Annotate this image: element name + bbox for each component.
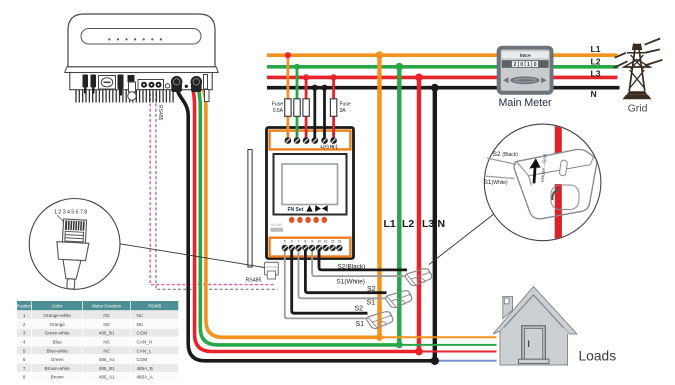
inverter vent [81,29,201,45]
svg-text:10: 10 [317,239,321,243]
wire CT2 S2 black wire [305,248,386,293]
wire CT1 S2 black wire [319,248,407,270]
svg-text:Position: Position [17,304,33,309]
svg-text:S1(White): S1(White) [337,278,365,285]
CT clamp CT2 on L2 [386,291,412,308]
main meter digits 2010 [502,60,549,68]
svg-text:485_B1: 485_B1 [99,331,115,336]
svg-text:COM: COM [137,331,148,336]
main meter spin wheel [510,76,539,84]
svg-text:Rx 485: Rx 485 [271,223,282,227]
svg-text:S2(Black): S2(Black) [338,263,366,270]
svg-text:Color: Color [52,304,63,309]
wire L2 to loads thin green [399,344,496,346]
junction dot L2 bottom [396,342,403,349]
svg-text:N: N [438,218,446,230]
svg-text:7: 7 [298,239,300,243]
wire meter terminal 1 drop [286,55,289,140]
svg-text:Brown: Brown [51,375,64,380]
junction dot top of L1 feeder [376,51,384,59]
svg-text:CAN_L: CAN_L [137,348,152,353]
svg-text:0: 0 [534,62,537,68]
svg-text:L1: L1 [384,218,396,230]
inverter right tab [204,75,208,90]
svg-text:N: N [591,89,597,99]
svg-text:1: 1 [23,313,26,318]
CT zoom circle [484,124,601,241]
wire meter terminal 4 drop [313,88,316,140]
wire inverter orange output [204,90,379,337]
wire CT3 S1 white wire [285,248,369,319]
svg-text:NC: NC [137,313,144,318]
svg-text:S2 (Black): S2 (Black) [493,151,519,158]
main meter body [497,46,554,95]
svg-text:S2: S2 [355,306,364,313]
svg-text:Orange-white: Orange-white [43,313,71,318]
svg-text:12345678: 12345678 [54,210,89,216]
small dot [185,85,188,88]
zoomed red wire through notch [555,184,562,241]
svg-text:NC: NC [103,313,110,318]
junction dot meter terminal 2 drop [294,64,300,70]
wire L1 to loads thin orange [380,336,497,338]
svg-text:CAN_H: CAN_H [137,340,153,345]
wire inverter red output [193,90,417,352]
clamp slot [559,160,568,176]
wire meter terminal 12 drop [332,77,335,140]
inverter heatsink fins [76,90,173,103]
svg-text:1: 1 [527,62,530,68]
wire meter terminal 2 drop [296,67,299,140]
svg-text:22: 22 [331,239,335,243]
svg-text:23: 23 [338,239,342,243]
meter indicator LEDs [289,217,294,223]
svg-text:S1: S1 [367,299,376,306]
fuse F1 0.5A [285,99,291,117]
house door [519,326,550,364]
energy meter LCD screen [282,164,338,205]
junction dot top of L2 feeder [395,63,403,71]
energy meter bottom terminal band [270,238,351,257]
svg-text:5: 5 [284,239,286,243]
svg-text:S1: S1 [356,321,365,328]
svg-text:6: 6 [291,239,293,243]
meter RJ45 jack [265,262,279,279]
svg-text:6: 6 [23,357,26,362]
inverter round port [128,75,135,82]
inverter connector block [118,75,124,90]
svg-text:Fuse: Fuse [272,102,283,108]
svg-text:NC: NC [103,348,110,353]
svg-text:8: 8 [305,239,307,243]
RJ45 zoom circle [29,199,120,290]
svg-text:9: 9 [311,239,313,243]
svg-text:11: 11 [323,132,327,136]
zoomed red wire upper [555,124,562,241]
house loads icon [493,287,577,366]
svg-text:Main Meter: Main Meter [499,97,552,109]
svg-text:L2: L2 [591,57,601,67]
wire inverter AC black output [177,86,434,361]
inverter DC switch [99,76,116,90]
S2 lead in circle [487,158,517,165]
svg-text:485A_A: 485A_A [137,375,154,380]
meter bottom terminal screws 5..23 [282,245,288,251]
wire N to loads blue [435,360,497,362]
svg-text:2: 2 [23,322,26,327]
svg-text:3A: 3A [340,108,347,114]
wire L3 bus (red) [267,76,618,80]
svg-text:RS485: RS485 [148,304,162,309]
wire inverter green output [199,90,398,345]
wire CT3 S2 black wire [292,248,368,313]
svg-text:L1: L1 [591,44,601,54]
inverter DC connectors [83,75,97,94]
svg-text:Blue-white: Blue-white [46,348,68,353]
energy meter top terminal band [270,131,351,150]
energy meter M1 body [267,128,354,259]
wire RS485 dashed grey [156,93,278,289]
svg-text:485_A1: 485_A1 [99,375,115,380]
svg-text:3: 3 [23,331,26,336]
wire L3 to loads thin red [419,351,497,353]
svg-text:Grid: Grid [628,103,648,115]
svg-text:Green-white: Green-white [45,331,70,336]
junction dot meter terminal 11 drop [321,85,327,91]
svg-text:kW.H: kW.H [520,53,531,58]
wire RS485 dashed pink [150,93,275,285]
svg-text:S1(White): S1(White) [484,179,509,186]
inverter AC connector 2 [191,80,202,92]
junction dot meter terminal 4 drop [312,85,318,91]
svg-text:0.5A: 0.5A [273,108,284,114]
svg-text:Blue: Blue [53,340,63,345]
junction dot N bottom [431,357,439,365]
fuse F3 0.5A [303,99,309,117]
inverter comm ports [138,80,164,90]
svg-text:4: 4 [23,340,26,345]
svg-text:Meter Function: Meter Function [92,304,121,309]
junction dot L3 bottom [415,348,423,356]
svg-text:5: 5 [23,348,26,353]
svg-text:1: 1 [287,132,289,136]
svg-text:Orange: Orange [50,322,66,327]
wire CT2 S1 white wire [299,248,388,298]
junction dot top of L3 feeder [415,74,423,82]
svg-text:Brown-white: Brown-white [45,366,71,371]
svg-text:4: 4 [314,132,316,136]
grid tower [613,39,662,100]
inverter body [65,14,218,90]
wire N feeder [433,88,437,361]
wire L1 feeder [377,55,381,337]
svg-text:485A_B: 485A_B [137,366,153,371]
wire drop segments over top band [286,126,289,141]
wire meter terminal 11 drop [323,88,326,140]
svg-text:8: 8 [23,375,26,380]
svg-text:2: 2 [296,132,298,136]
meter small grey port [271,228,284,232]
button left triangle [322,205,328,211]
svg-text:COM: COM [137,357,148,362]
fuse F2 0.5A [294,99,300,117]
svg-text:NC: NC [103,322,110,327]
clamp notch [551,185,579,210]
CT clamp CT3 on L1 [367,312,393,329]
wire L3 feeder [417,77,421,351]
svg-text:RS485: RS485 [246,278,262,284]
junction dot L1 bottom [376,334,383,341]
svg-text:7: 7 [23,366,26,371]
svg-text:Loads: Loads [579,349,617,364]
fuse F4 3A [330,99,336,117]
svg-text:Fuse: Fuse [340,102,351,108]
svg-text:S2: S2 [367,286,376,293]
svg-text:L(+) N(-): L(+) N(-) [321,144,338,149]
svg-text:12: 12 [332,132,336,136]
meter top terminal screws 1,2,3,4,11,12 [285,137,292,144]
svg-text:L3: L3 [422,218,434,230]
wire CT1 S1 white wire [312,248,408,276]
wire L2 bus (green) [267,65,619,69]
button up triangle [306,205,312,211]
svg-text:NC: NC [103,340,110,345]
junction dot meter terminal 12 drop [331,74,337,80]
direction arrow [529,158,540,183]
svg-text:0: 0 [520,62,523,68]
svg-text:485_B1: 485_B1 [99,366,115,371]
button right triangle [315,205,321,211]
pointer line CT circle to CT1 [429,214,494,264]
DIN rail left of meter [248,150,252,268]
svg-text:RS485: RS485 [157,105,163,121]
S1 lead in circle [484,176,515,179]
svg-text:Green: Green [51,357,64,362]
junction dot meter terminal 3 drop [303,74,309,80]
wire N bus (black) [267,86,620,90]
main meter kW.H band [502,52,549,59]
pointer line RJ45 circle to meter jack [120,244,265,268]
RJ45 connector art [54,219,90,290]
svg-text:FN Set: FN Set [288,207,304,213]
svg-text:485_A1: 485_A1 [99,357,115,362]
wire L2 feeder [397,67,401,345]
junction dot meter terminal 1 drop [285,52,291,58]
clamp fold lines [517,157,594,210]
svg-text:NC: NC [137,322,144,327]
CT clamp CT1 on L3 [405,269,431,286]
inverter AC connector 1 [171,80,182,92]
svg-text:L2: L2 [402,218,414,230]
wire L1 bus (orange) [267,53,618,57]
wire meter terminal 3 drop [305,77,308,140]
svg-text:2: 2 [513,62,516,68]
svg-text:21: 21 [324,239,328,243]
pinout table [17,301,179,381]
zoomed CT clamp body [514,149,597,218]
junction dot top of N feeder [431,84,439,92]
svg-text:3: 3 [305,132,307,136]
svg-text:L3: L3 [591,69,601,79]
energy meter inner panel [274,154,347,215]
